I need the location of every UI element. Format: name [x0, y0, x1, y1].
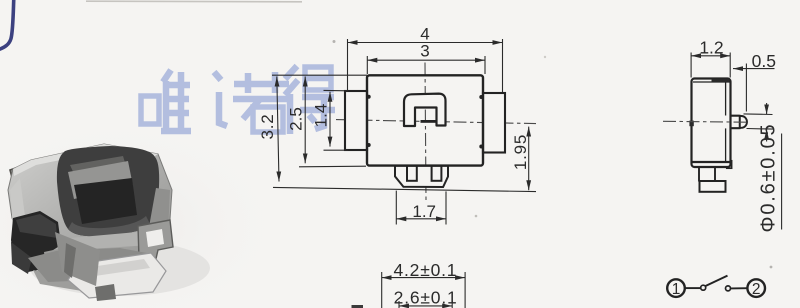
dim 4.2 line: [382, 277, 465, 279]
dim 2.5 line: [304, 77, 306, 164]
dim 2.6 extensions: [398, 301, 400, 308]
唯: [141, 96, 159, 124]
svg-text:1: 1: [672, 281, 681, 298]
left mounting tab: [345, 91, 367, 150]
shadow under left tab: [33, 270, 88, 291]
faint specks: [770, 266, 773, 269]
contact bar: [421, 120, 437, 123]
centerline horizontal: [336, 120, 536, 124]
dim 4.2 extensions: [381, 272, 383, 308]
foot base pad: [700, 181, 726, 192]
svg-text:1.2: 1.2: [699, 38, 723, 58]
dim 2.6 line: [399, 305, 452, 307]
dim 0.5 extension: [745, 64, 747, 112]
stem redraw over body edge: [731, 115, 740, 117]
foot legs: [698, 166, 700, 182]
svg-text:Φ0.6±0.05: Φ0.6±0.05: [758, 123, 780, 233]
phi0.6 dim arrows: [766, 103, 768, 114]
inner bottom line: [693, 161, 731, 163]
svg-text:2.6±0.1: 2.6±0.1: [394, 287, 458, 307]
svg-text:3: 3: [420, 42, 429, 61]
inner right wall: [725, 82, 727, 116]
top extension line for 3.2/2.5: [272, 74, 367, 76]
watermark 唯诺得: [141, 66, 335, 134]
dim 3.2 line: [277, 77, 279, 182]
wire from terminal 1: [685, 287, 701, 289]
dim 3 extension lines: [366, 56, 368, 74]
button ring lower sheen: [68, 216, 150, 236]
pin right: [432, 166, 442, 181]
plate top-left bright edge: [13, 144, 158, 176]
left dark side tab: [11, 211, 61, 272]
phi0.6 text underline: [781, 134, 783, 230]
photo soft background: [0, 130, 265, 308]
top-left small tab: [10, 159, 45, 192]
pin left: [407, 166, 417, 181]
stem cap: [740, 116, 747, 128]
dark button ring: [57, 146, 159, 236]
lower body mid-gray under plate: [28, 248, 152, 282]
dim 4 extension lines: [347, 39, 349, 90]
body bottom-right step: [727, 161, 732, 168]
dim 4 line: [348, 42, 503, 44]
dimension texts, center view: [258, 25, 530, 308]
terminal 2 circle: [747, 279, 765, 297]
body lower-left facet: [55, 232, 100, 286]
phi0.6 extensions: [744, 113, 773, 116]
wire to terminal 2: [731, 287, 747, 289]
dim 1.7 line: [396, 218, 446, 220]
plate left bright streak: [10, 178, 26, 240]
button dark core: [74, 178, 137, 224]
body outline: [367, 75, 483, 165]
dim 1.2 extensions: [690, 53, 692, 78]
dim 1.7 extensions: [395, 191, 397, 225]
诺: [214, 72, 221, 80]
tab-plate junction fill: [11, 242, 32, 274]
svg-text:1.95: 1.95: [511, 134, 530, 170]
ink smudge bottom: [352, 305, 364, 308]
button inner upper wall: [70, 156, 126, 176]
dim 1.2 line: [691, 55, 730, 57]
contact pole left: [701, 285, 706, 290]
scan top edge line: [86, 0, 302, 3]
contact pole right: [726, 286, 731, 291]
dimension thin lines, center view: [272, 39, 536, 308]
switch lever: [706, 276, 728, 286]
svg-text:3.2: 3.2: [258, 113, 277, 139]
side view dimensions: [691, 53, 782, 230]
shadow under part: [30, 240, 210, 296]
得: [285, 66, 297, 79]
bottom center dark contact: [95, 284, 116, 301]
center clip (button feature): [404, 94, 446, 126]
blue pen J stroke: [0, 0, 14, 50]
centerline vertical: [425, 63, 426, 201]
svg-text:0.5: 0.5: [752, 51, 776, 71]
terminal 1 circle: [667, 279, 685, 297]
svg-text:2.5: 2.5: [287, 107, 306, 131]
bottom bright foot: [68, 253, 166, 298]
svg-text:1.4: 1.4: [312, 104, 331, 128]
left wall notch: [689, 121, 693, 127]
svg-text:2: 2: [752, 281, 761, 298]
dim 3 line: [367, 59, 485, 61]
dim 1.4 line: [329, 92, 331, 147]
svg-text:4.2±0.1: 4.2±0.1: [393, 260, 457, 280]
2.5 bottom extension: [299, 165, 366, 168]
dim 1.95 line: [528, 127, 530, 191]
long bottom line: [273, 187, 536, 191]
right mounting tab: [483, 93, 505, 153]
button inner highlight wall: [68, 161, 133, 199]
centerline: [663, 120, 749, 123]
body outline: [692, 79, 731, 168]
svg-text:1.7: 1.7: [412, 202, 436, 221]
right claw tab: [138, 220, 173, 263]
foot inner shading: [84, 259, 150, 276]
main top plate: [8, 144, 172, 280]
dim 1.4 extensions: [324, 89, 349, 91]
top-right dark block: [712, 79, 730, 83]
dim 0.5 line with left arrow: [733, 68, 775, 70]
bottom trapezoid: [395, 166, 448, 187]
stem: [731, 116, 740, 129]
light rim under button: [70, 231, 150, 250]
corner dots: [367, 95, 371, 99]
plate right shading: [149, 188, 170, 231]
top inner line: [693, 81, 730, 83]
